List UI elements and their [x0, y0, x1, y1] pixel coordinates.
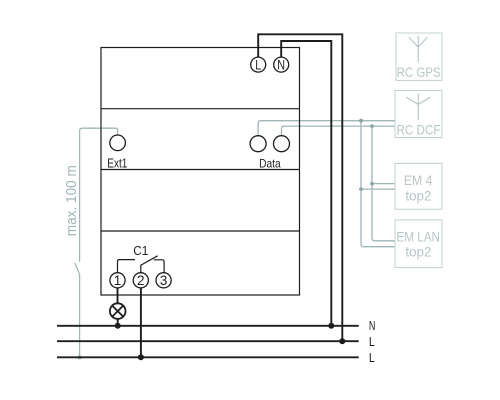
terminal 1	[110, 273, 125, 289]
device divider 1	[101, 108, 300, 110]
svg-text:Data: Data	[259, 156, 281, 170]
module RC DCF	[395, 91, 442, 138]
svg-text:2: 2	[137, 273, 145, 288]
junction dot N wire on line N	[328, 323, 334, 329]
svg-text:C1: C1	[133, 244, 148, 258]
junction dot bus A at EM 4	[359, 187, 363, 191]
svg-text:L: L	[369, 335, 375, 349]
module RC GPS	[396, 33, 442, 80]
module EM 4 top2	[395, 163, 442, 209]
svg-text:RC GPS: RC GPS	[397, 64, 441, 80]
terminal Ext1	[107, 135, 127, 171]
stub bus B to module EM 4	[372, 183, 395, 185]
module EM LAN top2	[395, 220, 442, 268]
terminal 3	[156, 273, 171, 289]
svg-text:EM 4: EM 4	[404, 172, 433, 188]
junction dot external switch wire on bottom line L	[77, 355, 81, 359]
terminal 2	[133, 273, 148, 289]
mains line N	[57, 325, 359, 327]
svg-text:L: L	[369, 351, 375, 365]
wire terminal N to bottom line N	[281, 41, 331, 326]
svg-text:max. 100 m: max. 100 m	[63, 165, 80, 236]
wire terminal 1 to lamp	[117, 288, 119, 304]
junction dot terminal 2 wire on bottom line L	[138, 354, 144, 360]
wire terminal 2 to bottom line L	[140, 288, 142, 357]
device divider 2	[101, 169, 300, 171]
terminals Data	[250, 136, 289, 171]
junction dot L wire on middle line L	[339, 338, 345, 344]
junction dot bus A at RC DCF	[359, 119, 363, 123]
junction dot lamp wire on line N	[115, 323, 121, 329]
svg-text:3: 3	[160, 273, 168, 288]
wire Ext1 terminal to external switch	[80, 128, 118, 262]
lamp	[110, 303, 126, 319]
antenna RC GPS	[409, 36, 427, 62]
stub bus A to module EM 4	[361, 188, 395, 190]
svg-text:N: N	[277, 57, 285, 73]
svg-text:Ext1: Ext1	[107, 156, 127, 171]
svg-text:L: L	[255, 57, 261, 73]
svg-text:top2: top2	[405, 187, 431, 203]
antenna RC DCF	[406, 94, 430, 121]
wire terminal L to bottom line L	[258, 34, 342, 341]
device divider 3	[101, 230, 300, 232]
switch blade C1 from terminal 2	[141, 256, 158, 273]
bus wire A vertical to module EM LAN	[361, 121, 395, 247]
terminal N	[274, 57, 289, 73]
terminal L	[251, 57, 266, 73]
wire Data A to module RC DCF	[258, 121, 395, 136]
mains line L bottom	[57, 356, 359, 358]
device outline	[101, 48, 300, 296]
contact bar from terminal 3	[154, 260, 164, 273]
wire lamp to line N	[117, 319, 119, 326]
svg-text:N: N	[369, 319, 376, 333]
contact bar from terminal 1	[118, 260, 136, 273]
junction dot bus B at EM 4	[370, 182, 374, 186]
svg-text:RC DCF: RC DCF	[397, 121, 441, 137]
mains line L middle	[57, 340, 359, 342]
junction dot bus B at RC DCF	[370, 124, 374, 128]
svg-text:1: 1	[114, 273, 122, 288]
wire Data B to module RC DCF	[282, 126, 396, 136]
bus wire B vertical to module EM LAN	[372, 126, 395, 241]
svg-text:top2: top2	[405, 243, 431, 259]
wire external switch to bottom line L	[79, 274, 81, 358]
svg-text:EM LAN: EM LAN	[396, 228, 440, 244]
external switch blade	[75, 263, 79, 273]
